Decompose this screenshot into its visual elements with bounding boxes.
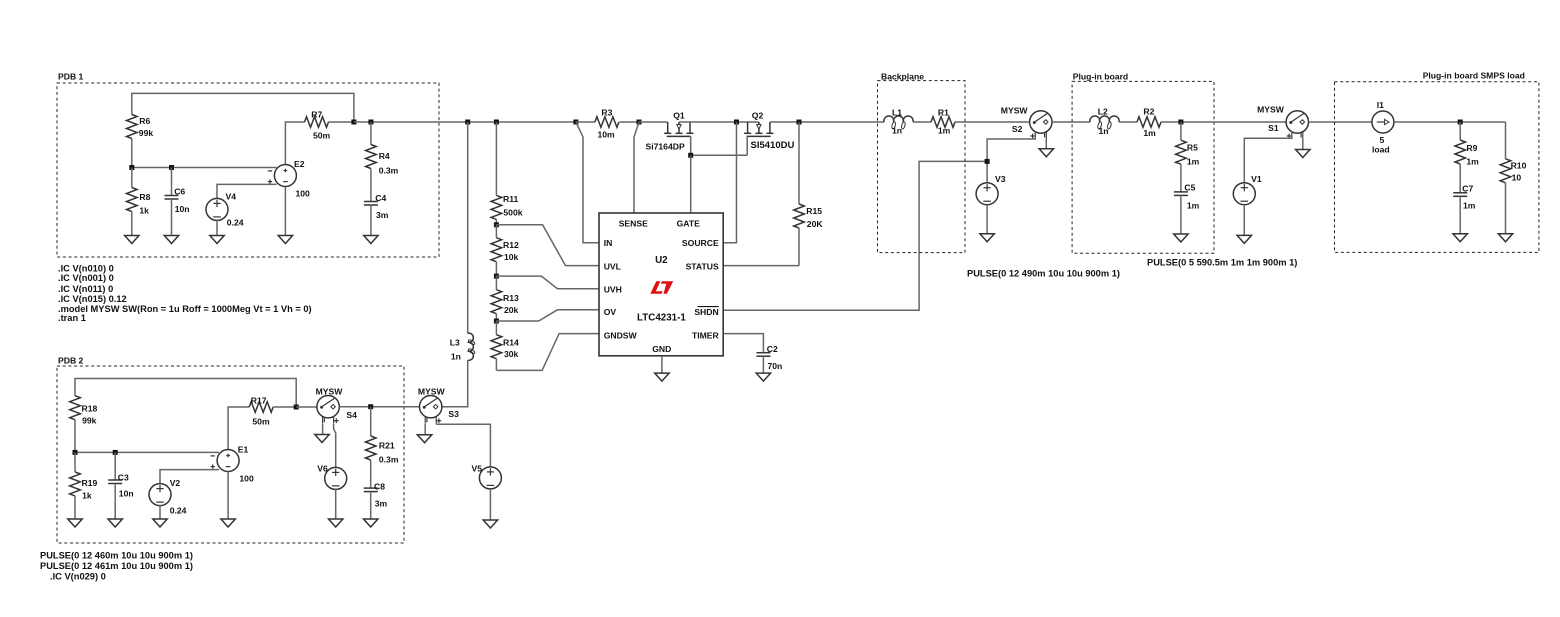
wire V1 to ground [1243, 205, 1245, 236]
svg-text:I1: I1 [1377, 100, 1384, 110]
svg-text:1m: 1m [1143, 128, 1156, 138]
ground S1 [1296, 150, 1310, 158]
svg-text:Si7164DP: Si7164DP [646, 142, 685, 152]
wire S1 control to ground [1302, 139, 1304, 150]
wire R18 top to R17 node [75, 379, 296, 408]
svg-text:R18: R18 [82, 404, 98, 414]
svg-text:STATUS: STATUS [686, 262, 719, 272]
wire V4 to ground [216, 220, 218, 235]
svg-text:10m: 10m [598, 130, 616, 140]
wire R6 to node [131, 139, 133, 168]
ground C8 [364, 519, 378, 527]
capacitor C7 [1459, 164, 1461, 193]
wire R7 to bus [329, 121, 354, 123]
op-amp E1 dependent source [217, 450, 239, 472]
wire gate node [691, 154, 748, 156]
node junction R6-R8 [129, 165, 134, 170]
wire R2 to S1 [1161, 121, 1286, 123]
ground C4 [364, 236, 378, 244]
wire bus to Q2 drain [737, 121, 759, 123]
svg-text:UVH: UVH [604, 285, 622, 295]
wire E2 to ground [284, 187, 286, 236]
capacitor C5 [1180, 164, 1182, 192]
wire bus PDB1 out [354, 121, 576, 123]
ground R8 [125, 236, 139, 244]
svg-text:R5: R5 [1187, 143, 1198, 153]
resistor R2 [1137, 117, 1161, 128]
svg-text:.tran 1: .tran 1 [58, 313, 86, 323]
switch S1 MYSW [1286, 111, 1308, 133]
ground V4 [210, 236, 224, 244]
svg-text:C4: C4 [375, 193, 386, 203]
wire E1 to R17 [228, 407, 249, 450]
current source I1 [1372, 111, 1394, 133]
switch S3 MYSW [420, 396, 442, 418]
wire S4 to S3 [339, 406, 419, 408]
svg-text:1n: 1n [892, 126, 902, 136]
svg-text:R13: R13 [503, 293, 519, 303]
svg-text:R2: R2 [1143, 107, 1154, 117]
svg-text:1m: 1m [1187, 201, 1200, 211]
svg-text:GND: GND [652, 344, 671, 354]
resistor R5 [1180, 122, 1182, 140]
wire Q1 source to Q2 [679, 121, 737, 123]
svg-text:L3: L3 [450, 338, 460, 348]
svg-text:R17: R17 [251, 396, 267, 406]
wire L2 to R2 [1119, 121, 1137, 123]
svg-text:V2: V2 [170, 478, 181, 488]
ground R19 [68, 519, 82, 527]
svg-text:0.3m: 0.3m [379, 455, 399, 465]
LT logo [650, 281, 673, 293]
wire Q2 to backplane [770, 121, 884, 123]
wire V2 to E1 [160, 470, 219, 484]
svg-text:E2: E2 [294, 159, 305, 169]
svg-text:.IC V(n001) 0: .IC V(n001) 0 [58, 273, 114, 283]
svg-text:SI5410DU: SI5410DU [751, 140, 795, 151]
wire E2 to R7 [285, 122, 304, 165]
ground C2 [756, 373, 770, 381]
ground V1 [1237, 235, 1251, 243]
wire SOURCE [723, 122, 736, 243]
svg-text:0.24: 0.24 [227, 217, 244, 227]
node junction C6 tap [169, 165, 174, 170]
ground U2 GND [655, 373, 669, 381]
node junction R21 tap [368, 404, 373, 409]
ground S2 [1039, 149, 1053, 157]
resistor R17 [249, 402, 273, 413]
svg-text:1k: 1k [139, 206, 149, 216]
wire R17 to node [273, 406, 296, 408]
svg-text:10n: 10n [119, 489, 134, 499]
svg-text:R14: R14 [503, 338, 519, 348]
inductor L3 [468, 333, 474, 360]
svg-text:MYSW: MYSW [1257, 105, 1285, 115]
svg-text:1m: 1m [1466, 157, 1479, 167]
svg-text:S3: S3 [448, 409, 459, 419]
svg-text:R3: R3 [601, 108, 612, 118]
svg-text:R6: R6 [139, 116, 150, 126]
svg-text:10n: 10n [175, 204, 190, 214]
node junction SHDN-V3 [985, 159, 990, 164]
svg-text:1n: 1n [1099, 126, 1109, 136]
svg-text:L2: L2 [1098, 107, 1108, 117]
svg-text:20k: 20k [504, 305, 519, 315]
wire S1 control to V1 [1244, 131, 1292, 182]
resistor R14 [495, 321, 497, 335]
voltage source V2 [149, 484, 171, 506]
ground V2 [153, 519, 167, 527]
svg-text:1k: 1k [82, 491, 92, 501]
svg-text:SOURCE: SOURCE [682, 238, 719, 248]
wire E1 to ground [227, 472, 229, 520]
svg-text:.model MYSW SW(Ron = 1u Roff =: .model MYSW SW(Ron = 1u Roff = 1000Meg V… [58, 304, 312, 314]
ground S4 [315, 435, 329, 443]
ground V5 [483, 520, 497, 528]
resistor R12 [495, 225, 497, 238]
wire GNDSW [496, 334, 599, 371]
block PDB 1 box [57, 83, 439, 257]
resistor R8 [131, 168, 133, 188]
wire S2 control to ground [1045, 139, 1047, 149]
voltage source V3 [976, 183, 998, 205]
wire gate to GATE pin [690, 155, 692, 213]
svg-text:C8: C8 [374, 482, 385, 492]
ground V6 [329, 519, 343, 527]
wire V6 to ground [335, 489, 337, 519]
svg-text:30k: 30k [504, 349, 519, 359]
svg-text:S4: S4 [346, 410, 357, 420]
node junction R15 tap [797, 120, 802, 125]
svg-text:LTC4231-1: LTC4231-1 [637, 313, 686, 324]
svg-text:100: 100 [296, 189, 311, 199]
wire UVL [496, 225, 599, 266]
node junction gate [688, 153, 693, 158]
svg-text:Q1: Q1 [673, 111, 685, 121]
node junction C3 tap [113, 450, 118, 455]
svg-text:UVL: UVL [604, 262, 621, 272]
wire R18 to node [74, 420, 76, 453]
svg-text:R11: R11 [503, 194, 519, 204]
op-amp E2 dependent source [274, 165, 296, 187]
wire node B to E1 [75, 451, 219, 453]
svg-text:SHDN: SHDN [694, 307, 718, 317]
wire S3 control to V5 [436, 424, 490, 466]
wire S3 control to ground [424, 424, 426, 435]
svg-text:50m: 50m [313, 131, 331, 141]
voltage source V6 [325, 467, 347, 489]
op-amp U2 LTC4231-1 body [599, 213, 723, 356]
wire GND pin [661, 356, 663, 373]
ground R10 [1498, 234, 1512, 242]
svg-text:C3: C3 [118, 473, 129, 483]
svg-text:PULSE(0 5 590.5m 1m 1m 900m 1): PULSE(0 5 590.5m 1m 1m 900m 1) [1147, 258, 1297, 268]
svg-text:PDB 2: PDB 2 [58, 356, 84, 366]
wire L1 to R1 [913, 121, 931, 123]
capacitor C4 [370, 169, 372, 202]
svg-text:TIMER: TIMER [692, 331, 720, 341]
voltage source V4 [206, 198, 228, 220]
resistor R3 [576, 121, 595, 123]
svg-text:C5: C5 [1184, 183, 1195, 193]
svg-text:E1: E1 [238, 445, 249, 455]
svg-text:R19: R19 [82, 478, 98, 488]
ground V3 [980, 234, 994, 242]
svg-text:100: 100 [239, 474, 254, 484]
inductor L1 [884, 116, 913, 122]
svg-text:1m: 1m [1187, 157, 1200, 167]
svg-text:70n: 70n [768, 361, 783, 371]
node junction R13-R14 [494, 319, 499, 324]
svg-text:MYSW: MYSW [1001, 106, 1029, 116]
node junction R5 tap [1178, 120, 1183, 125]
wire STATUS [723, 265, 799, 267]
svg-text:MYSW: MYSW [316, 387, 344, 397]
svg-text:C2: C2 [767, 344, 778, 354]
node junction R11 tap [494, 120, 499, 125]
svg-text:S2: S2 [1012, 124, 1023, 134]
svg-text:.IC V(n029) 0: .IC V(n029) 0 [50, 572, 106, 582]
block PDB 2 box [57, 366, 404, 543]
svg-text:IN: IN [604, 238, 613, 248]
svg-text:R15: R15 [806, 206, 822, 216]
resistor R4 [370, 122, 372, 145]
wire I1 to loads [1394, 121, 1506, 123]
ground E2 [278, 236, 292, 244]
node junction R9 tap [1458, 120, 1463, 125]
wire S1 to I1 [1309, 121, 1372, 123]
wire bus to Q1 [639, 121, 668, 123]
wire bus to L3 [467, 122, 469, 333]
resistor R1 [931, 117, 955, 128]
block Plug-in board box [1072, 81, 1214, 253]
svg-text:5: 5 [1380, 135, 1385, 145]
svg-text:SENSE: SENSE [619, 219, 648, 229]
ground C5 [1174, 234, 1188, 242]
resistor R19 [74, 452, 76, 472]
capacitor C3 [114, 452, 116, 480]
wire node A to E2 [132, 167, 277, 169]
svg-text:V6: V6 [317, 464, 328, 474]
wire R6 top to bus [132, 93, 354, 122]
resistor R18 [70, 396, 81, 420]
capacitor C8 [370, 460, 372, 488]
svg-text:C7: C7 [1462, 184, 1473, 194]
svg-text:R10: R10 [1511, 161, 1527, 171]
svg-text:Plug-in board SMPS load: Plug-in board SMPS load [1423, 71, 1525, 81]
svg-text:.IC V(n011) 0: .IC V(n011) 0 [58, 284, 113, 294]
wire V5 to ground [489, 489, 491, 520]
svg-text:R4: R4 [379, 151, 390, 161]
ground S3 [417, 435, 431, 443]
svg-text:R21: R21 [379, 441, 395, 451]
capacitor C2 [756, 352, 770, 354]
svg-text:20K: 20K [807, 219, 824, 229]
svg-text:3m: 3m [376, 210, 389, 220]
svg-text:99k: 99k [82, 416, 97, 426]
svg-text:PDB 1: PDB 1 [58, 72, 84, 82]
svg-text:V1: V1 [1251, 174, 1262, 184]
svg-text:load: load [1372, 145, 1390, 155]
svg-text:50m: 50m [252, 417, 270, 427]
svg-text:0.3m: 0.3m [379, 166, 399, 176]
svg-text:R12: R12 [503, 240, 519, 250]
svg-text:0.24: 0.24 [170, 506, 187, 516]
block Backplane box [878, 81, 966, 253]
wire TIMER to C2 [723, 334, 763, 353]
resistor R13 [495, 276, 497, 290]
resistor R10 [1505, 122, 1507, 159]
svg-text:10k: 10k [504, 252, 519, 262]
node junction R11-R12 [494, 222, 499, 227]
wire S4 control to ground [322, 424, 324, 435]
resistor R6 [127, 115, 138, 139]
svg-text:OV: OV [604, 307, 617, 317]
svg-text:1m: 1m [1463, 201, 1476, 211]
wire S2 to plug-in [1052, 121, 1090, 123]
svg-text:V5: V5 [472, 464, 483, 474]
node junction R17 out [294, 405, 299, 410]
switch S2 MYSW [1030, 111, 1052, 133]
svg-text:500k: 500k [503, 208, 522, 218]
svg-text:GATE: GATE [677, 219, 701, 229]
wire SHDN to V3 node [723, 161, 987, 310]
svg-text:PULSE(0 12 460m 10u 10u 900m 1: PULSE(0 12 460m 10u 10u 900m 1) [40, 551, 193, 561]
svg-text:R8: R8 [139, 192, 150, 202]
svg-text:.IC V(n010) 0: .IC V(n010) 0 [58, 264, 114, 274]
voltage source V1 [1233, 183, 1255, 205]
svg-text:C6: C6 [174, 187, 185, 197]
ground C7 [1453, 234, 1467, 242]
wire V4 to E2 [217, 184, 277, 198]
svg-text:L1: L1 [892, 108, 902, 118]
wire L3 to S3 [442, 360, 468, 407]
node junction L3 tap [465, 120, 470, 125]
svg-text:PULSE(0 12 490m 10u 10u 900m 1: PULSE(0 12 490m 10u 10u 900m 1) [967, 269, 1120, 279]
node junction R18-R19 [73, 450, 78, 455]
wire node to S4 [296, 406, 317, 408]
wire IN [576, 122, 599, 243]
svg-text:R1: R1 [938, 108, 949, 118]
wire S4 control to V6 [334, 424, 336, 467]
ground C3 [108, 519, 122, 527]
svg-text:99k: 99k [139, 128, 154, 138]
wire V3 to ground [986, 205, 988, 234]
inductor L2 [1090, 116, 1119, 122]
wire SENSE [634, 122, 639, 213]
wire V2 to ground [159, 506, 161, 519]
resistor R21 [370, 407, 372, 436]
voltage source V5 [479, 467, 501, 489]
node junction R4 tap [368, 120, 373, 125]
svg-text:R9: R9 [1466, 143, 1477, 153]
transistor Q1 [667, 122, 669, 133]
wire R1 to S2 [955, 121, 1030, 123]
svg-text:10: 10 [1512, 173, 1522, 183]
svg-text:.IC V(n015) 0.12: .IC V(n015) 0.12 [58, 294, 127, 304]
transistor Q2 [747, 122, 749, 133]
svg-text:S1: S1 [1268, 123, 1279, 133]
capacitor C6 [171, 168, 173, 196]
node junction SOURCE tap [734, 120, 739, 125]
svg-text:V3: V3 [995, 174, 1006, 184]
svg-text:GNDSW: GNDSW [604, 331, 638, 341]
svg-text:Backplane: Backplane [881, 72, 924, 82]
svg-text:U2: U2 [655, 255, 668, 266]
svg-text:MYSW: MYSW [418, 387, 446, 397]
node junction R12-R13 [494, 274, 499, 279]
resistor R15 [798, 122, 800, 204]
svg-text:Q2: Q2 [752, 111, 764, 121]
node junction R7-bus [351, 120, 356, 125]
svg-text:R7: R7 [311, 110, 322, 120]
svg-text:3m: 3m [375, 499, 388, 509]
resistor R11 [495, 122, 497, 195]
wire S2 control to V3 [987, 132, 1035, 183]
resistor R7 [305, 117, 329, 128]
node junction R3 right / SENSE tap [637, 120, 642, 125]
node junction R3 left / IN tap [573, 120, 578, 125]
ground E1 [221, 519, 235, 527]
block SMPS load box [1335, 82, 1539, 253]
ground C6 [164, 236, 178, 244]
svg-text:PULSE(0 12 461m 10u 10u 900m 1: PULSE(0 12 461m 10u 10u 900m 1) [40, 561, 193, 571]
resistor R9 [1459, 122, 1461, 140]
switch S4 MYSW [317, 396, 339, 418]
wire UVH [496, 276, 599, 289]
svg-text:1n: 1n [451, 352, 461, 362]
svg-text:Plug-in board: Plug-in board [1073, 72, 1128, 82]
wire OV [496, 310, 599, 321]
svg-text:V4: V4 [226, 191, 237, 201]
svg-text:1m: 1m [938, 126, 951, 136]
